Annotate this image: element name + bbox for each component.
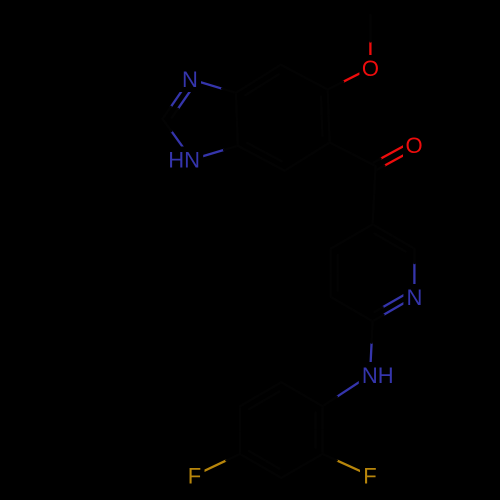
svg-text:O: O (405, 133, 422, 158)
pyridine bond C2-N1 (413, 249, 415, 297)
pyridine-NH bond (370, 321, 373, 375)
benzo ring bond C6=C5 (321, 90, 330, 143)
aryl-carbonyl bond (330, 143, 376, 167)
phenyl ring bond C4-C5 (239, 406, 241, 454)
phenyl ring bond C2-C3 (281, 454, 322, 478)
carbonyl-pyridine bond (373, 166, 376, 224)
atom label F (4-fluoro) (185, 463, 205, 489)
phenyl ring bond C3=C4 (240, 451, 281, 478)
pyridine bond C5=C4 (331, 249, 338, 297)
pyridine bond C4-C3 (331, 224, 373, 248)
benzo ring bond C4=C3a (238, 143, 285, 171)
pyridine bond C3-C2 (373, 224, 415, 251)
benzimidazole fusion bond C3a-C7a (236, 93, 238, 146)
phenyl ring bond C5=C6 (240, 382, 281, 409)
ketone C=O double bond (374, 142, 416, 170)
svg-text:F: F (188, 463, 201, 488)
svg-text:N: N (182, 67, 198, 92)
NH-phenyl bond (323, 375, 370, 406)
svg-text:HN: HN (168, 147, 200, 172)
C-F bond (2-fluoro) (323, 454, 370, 476)
imidazole N3-C3a bond (192, 146, 238, 160)
atom label O (ketone) (403, 132, 425, 158)
imidazole N1-C7a bond (190, 79, 236, 93)
C-F bond (4-fluoro) (195, 454, 241, 476)
benzo ring bond C7a=C7 (236, 65, 281, 95)
atom label O (methoxy) (359, 55, 381, 81)
benzo ring bond C5-C4 (285, 143, 330, 171)
pyridine bond C6-C5 (331, 297, 373, 321)
methoxy C6-O bond (328, 68, 371, 90)
phenyl ring bond C1=C2 (316, 406, 323, 454)
benzo ring bond C7-C6 (281, 65, 328, 90)
svg-text:O: O (362, 56, 379, 81)
atom label N (pyridine) (403, 284, 425, 310)
imidazole C2=N1 double bond (163, 79, 193, 119)
methoxy O-CH3 bond (369, 15, 371, 68)
atom label N1 (benzimidazole sp2 N) (179, 66, 201, 92)
atom label F (2-fluoro) (360, 463, 380, 489)
atom label HN (benzimidazole NH) (165, 147, 203, 173)
svg-text:F: F (363, 463, 376, 488)
phenyl ring bond C6-C1 (281, 382, 322, 406)
atom label NH (amine) (359, 362, 397, 388)
pyridine N1=C6 double bond (373, 294, 415, 321)
svg-text:N: N (406, 285, 422, 310)
imidazole C2-N3 bond (163, 119, 192, 160)
svg-text:NH: NH (362, 363, 394, 388)
